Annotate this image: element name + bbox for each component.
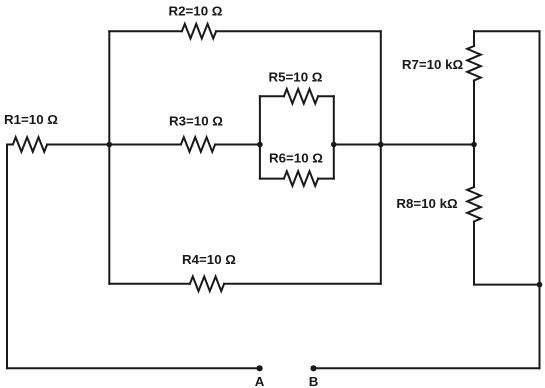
wire: bottom wire right of R4	[224, 283, 381, 285]
node: junction middle box right	[378, 142, 384, 148]
resistor R6	[284, 171, 318, 186]
svg-text:R2=10 Ω: R2=10 Ω	[169, 3, 223, 18]
resistor R8	[467, 187, 481, 222]
node: junction parallel box left	[257, 142, 263, 148]
wire: middle box right vertical	[380, 31, 382, 284]
wire: parallel box top-left segment	[260, 95, 284, 97]
svg-text:R1=10 Ω: R1=10 Ω	[4, 112, 58, 127]
wire: middle box left vertical	[108, 31, 110, 284]
wire: bottom wire left of R4	[109, 283, 190, 285]
node: junction R7/R8	[471, 142, 477, 148]
wire: top-right horizontal (R7 top to far right)	[474, 30, 540, 32]
svg-text:B: B	[309, 374, 319, 388]
terminal B	[310, 365, 316, 371]
wire: parallel box top-right segment	[318, 95, 334, 97]
wire: parallel box bottom-left segment	[260, 178, 284, 180]
resistor R4	[190, 277, 224, 292]
wire: far-right vertical	[539, 31, 541, 368]
wire: middle wire to R3	[109, 144, 181, 146]
wire: R8 bottom horizontal to far right	[474, 284, 540, 286]
resistor R2	[182, 24, 216, 39]
wire: R8 bottom lead	[473, 222, 475, 285]
svg-text:R7=10 kΩ: R7=10 kΩ	[402, 57, 464, 72]
node: junction parallel box right	[331, 142, 337, 148]
resistor R3	[181, 137, 215, 152]
wire: R7 top lead	[473, 31, 475, 46]
svg-text:A: A	[255, 374, 265, 388]
resistor R5	[284, 89, 318, 104]
terminal A	[257, 365, 263, 371]
wire: middle box right to R7/R8 column	[381, 144, 474, 146]
wire: R1 right lead to middle box left	[47, 144, 109, 146]
wire: R7 bottom lead to junction	[473, 81, 475, 145]
svg-text:R6=10 Ω: R6=10 Ω	[269, 151, 323, 166]
resistor R1	[7, 137, 47, 152]
wire: top wire left of R2	[109, 30, 182, 32]
node: junction middle box left	[107, 142, 113, 148]
wire: parallel box to middle box right vertical	[334, 144, 381, 146]
wire: parallel box right vertical	[333, 96, 335, 178]
svg-text:R3=10 Ω: R3=10 Ω	[169, 113, 223, 128]
resistor R7	[467, 46, 481, 81]
wire: junction to R8 top lead	[473, 145, 475, 188]
svg-text:R4=10 Ω: R4=10 Ω	[182, 252, 236, 267]
wire: top wire right of R2	[216, 30, 381, 32]
wire: bottom-left horizontal to terminal A	[7, 367, 260, 369]
svg-text:R8=10 kΩ: R8=10 kΩ	[396, 196, 458, 211]
svg-text:R5=10 Ω: R5=10 Ω	[269, 69, 323, 84]
node: junction far-right bottom	[537, 282, 543, 288]
wire: R3 to parallel box	[215, 144, 260, 146]
wire: bottom-right horizontal from terminal B	[314, 367, 540, 369]
wire: parallel box left vertical	[259, 96, 261, 178]
wire: parallel box bottom-right segment	[318, 178, 334, 180]
wire: far-left vertical	[6, 145, 8, 369]
